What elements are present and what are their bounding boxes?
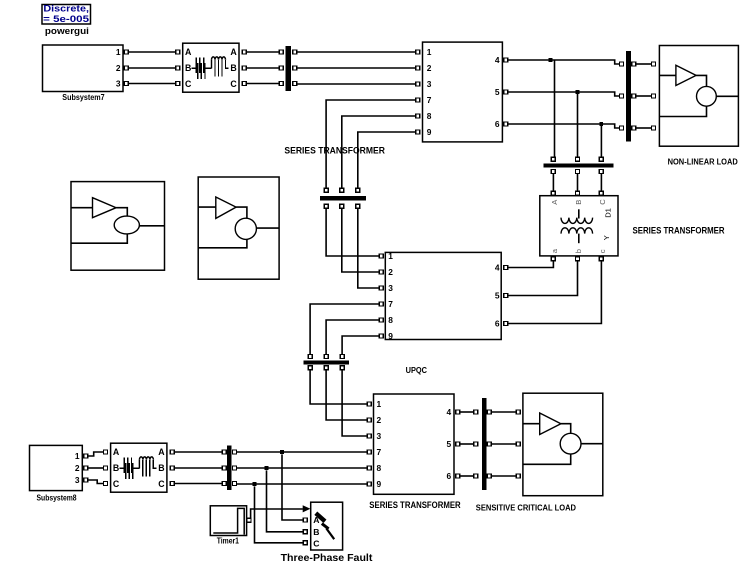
wire bus B5 to non-linear load 2 xyxy=(636,95,651,97)
sensitive load icon out line xyxy=(581,443,603,445)
series transformer bottom input ports xyxy=(367,402,371,486)
L2 icon triangle xyxy=(216,197,236,218)
wire bottom block output 5 to bus B7 xyxy=(460,443,474,445)
wire junction to fault port A xyxy=(282,454,303,520)
Subsystem8 output ports xyxy=(84,454,88,482)
wire Subsystem8-3 to T2-C xyxy=(88,480,103,484)
svg-text:7: 7 xyxy=(388,299,393,309)
Timer1 step icon xyxy=(213,508,244,534)
svg-text:5: 5 xyxy=(495,87,500,97)
wire UPQC input 9 from bus B4 xyxy=(342,336,379,354)
svg-text:3: 3 xyxy=(377,431,382,441)
bus bar B2 xyxy=(320,196,366,200)
T3 winding 1 coil xyxy=(561,218,593,224)
svg-text:SERIES TRANSFORMER: SERIES TRANSFORMER xyxy=(369,500,461,510)
wire T2-A to bus B6 xyxy=(175,451,223,453)
sensitive load icon triangle xyxy=(540,413,561,435)
wire bus B2 to UPQC input 2 xyxy=(342,209,379,272)
wire T3-A to bus B3 xyxy=(552,174,554,191)
wire junction to fault port C xyxy=(255,486,304,542)
svg-text:b: b xyxy=(574,249,583,253)
wire bus B5 to non-linear load 1 xyxy=(636,63,651,65)
non-linear load icon out line xyxy=(716,95,738,97)
fault lightning bolt xyxy=(316,513,334,539)
T2 input ports A B C xyxy=(104,450,108,486)
wire bus B4 to series-transformer-bottom input 3 xyxy=(342,370,367,436)
wire T1-C to bus B1 xyxy=(247,83,280,85)
bus B7 left ports xyxy=(474,410,478,478)
wire column B to top block input 8 xyxy=(342,116,416,188)
svg-text:NON-LINEAR LOAD: NON-LINEAR LOAD xyxy=(668,156,738,166)
svg-text:6: 6 xyxy=(495,119,500,129)
wire bus B7 to sensitive load 2 xyxy=(492,443,516,445)
junction node B xyxy=(576,90,580,94)
svg-text:Discrete,: Discrete, xyxy=(43,4,89,14)
non-linear load icon source line in xyxy=(659,74,676,76)
svg-text:4: 4 xyxy=(495,55,500,65)
bus B2 bottom ports xyxy=(324,204,360,208)
svg-text:1: 1 xyxy=(377,399,382,409)
powergui block xyxy=(42,4,91,25)
subsystem block L2 xyxy=(198,177,279,279)
wire bus B4 to series-transformer-bottom input 1 xyxy=(310,370,367,404)
svg-text:A: A xyxy=(185,47,192,57)
wire T2-C to bus B6 xyxy=(175,483,223,485)
bus bar B6 xyxy=(227,445,232,490)
sensitive load icon circle xyxy=(560,433,581,454)
bus B4 bottom ports xyxy=(308,366,344,370)
L1 icon bottom line xyxy=(71,234,127,243)
svg-text:A: A xyxy=(158,447,165,457)
svg-text:= 5e-005: = 5e-005 xyxy=(43,14,89,24)
L1 icon line in xyxy=(71,207,93,209)
svg-text:8: 8 xyxy=(377,463,382,473)
T3 top ports A B C xyxy=(551,191,603,195)
svg-text:2: 2 xyxy=(116,63,121,73)
svg-text:C: C xyxy=(158,479,165,489)
svg-text:6: 6 xyxy=(447,471,452,481)
T2 winding icon xyxy=(120,457,157,479)
bus B6 left ports xyxy=(222,450,226,486)
svg-text:SENSITIVE CRITICAL LOAD: SENSITIVE CRITICAL LOAD xyxy=(476,502,576,512)
T2 output ports A B C xyxy=(170,450,174,486)
subsystem Subsystem8 xyxy=(30,445,83,490)
T3 winding 2 stub xyxy=(578,234,580,244)
svg-text:7: 7 xyxy=(377,447,382,457)
bus B1 right ports xyxy=(293,50,297,86)
T3 port labels a b c xyxy=(550,248,607,253)
series transformer bottom block xyxy=(374,394,455,494)
non-linear load icon triangle xyxy=(676,65,696,85)
wire Subsystem7-2 to T1-B xyxy=(129,67,176,69)
svg-text:2: 2 xyxy=(427,63,432,73)
svg-text:Subsystem7: Subsystem7 xyxy=(62,92,104,102)
svg-text:A: A xyxy=(113,447,120,457)
svg-text:SERIES TRANSFORMER: SERIES TRANSFORMER xyxy=(633,225,726,235)
junction node fault A xyxy=(280,450,284,454)
L2 icon out line xyxy=(256,227,279,229)
Timer1 block xyxy=(210,506,246,536)
series transformer bottom output ports xyxy=(456,410,460,478)
bus B2 top ports xyxy=(324,188,360,192)
svg-text:1: 1 xyxy=(116,47,121,57)
svg-text:B: B xyxy=(574,200,583,205)
junction node fault C xyxy=(253,482,257,486)
UPQC input ports xyxy=(379,254,383,338)
wire bus B4 to series-transformer-bottom input 2 xyxy=(326,370,367,420)
L1 icon connector xyxy=(116,208,127,217)
wire Timer1 to fault trigger xyxy=(251,509,303,518)
T3 bottom ports a b c xyxy=(551,257,603,261)
wire column C to top block input 9 xyxy=(358,132,416,188)
non-linear load block xyxy=(659,46,738,147)
svg-text:5: 5 xyxy=(495,290,500,300)
wire column A to top block input 7 xyxy=(326,100,415,188)
wire UPQC input 7 from bus B4 xyxy=(310,304,379,354)
bus bar B1 xyxy=(285,46,291,91)
wire bus B7 to sensitive load 1 xyxy=(492,411,516,413)
bus B7 right ports xyxy=(487,410,491,478)
bus B3 top ports xyxy=(551,157,603,161)
wire bus B2 to UPQC input 3 xyxy=(358,209,379,288)
svg-text:c: c xyxy=(598,249,607,253)
bus bar B4 xyxy=(303,361,349,365)
svg-text:B: B xyxy=(313,527,319,537)
wire T3-C to bus B3 xyxy=(600,174,602,191)
wire bus B1 to series-transformer-top input 3 xyxy=(297,83,415,85)
three-phase fault block xyxy=(311,502,343,550)
svg-text:2: 2 xyxy=(75,463,80,473)
T3 winding 2 coil xyxy=(561,228,593,234)
svg-text:9: 9 xyxy=(377,479,382,489)
wire UPQC output 4 to T3 port a xyxy=(508,261,553,268)
wire junction B down to bus B3 xyxy=(577,92,579,157)
svg-text:9: 9 xyxy=(427,127,432,137)
T1 winding icon xyxy=(192,57,229,79)
wire top block output 6 to bus B5 xyxy=(508,124,619,128)
fault input ports A B C xyxy=(303,518,307,545)
svg-text:2: 2 xyxy=(388,267,393,277)
Timer1 output port xyxy=(247,518,251,522)
sensitive load icon connector xyxy=(561,424,571,434)
three-phase transformer T2 block xyxy=(111,443,167,492)
svg-text:3: 3 xyxy=(388,283,393,293)
wire bottom block output 6 to bus B7 xyxy=(460,475,474,477)
series transformer top input ports xyxy=(416,50,420,134)
svg-text:5: 5 xyxy=(447,439,452,449)
wire junction C down to bus B3 xyxy=(600,124,602,157)
svg-text:B: B xyxy=(158,463,164,473)
wire T1-A to bus B1 xyxy=(247,51,280,53)
wire junction to fault port B xyxy=(267,470,304,531)
svg-text:UPQC: UPQC xyxy=(406,365,427,375)
sensitive critical load block xyxy=(523,393,603,496)
sensitive load icon line in xyxy=(523,423,540,425)
non-linear load icon circle xyxy=(697,86,717,106)
subsystem Subsystem7 xyxy=(43,45,124,92)
wire bus B1 to series-transformer-top input 2 xyxy=(297,67,415,69)
svg-text:6: 6 xyxy=(495,318,500,328)
svg-text:3: 3 xyxy=(75,475,80,485)
svg-text:C: C xyxy=(113,479,120,489)
series transformer top block xyxy=(423,42,503,142)
L2 icon connector xyxy=(236,207,247,218)
wire bus B5 to non-linear load 3 xyxy=(636,127,651,129)
svg-text:SERIES TRANSFORMER: SERIES TRANSFORMER xyxy=(284,145,385,155)
wire UPQC output 6 to T3 port c xyxy=(508,261,601,324)
bus B6 right ports xyxy=(233,450,237,486)
T3 winding 1 stub xyxy=(578,209,580,218)
wire Subsystem7-3 to T1-C xyxy=(129,83,176,85)
UPQC block xyxy=(385,251,501,341)
svg-text:1: 1 xyxy=(75,451,80,461)
L2 icon line in xyxy=(198,206,216,208)
T1 output ports A B C xyxy=(242,50,246,86)
svg-text:Timer1: Timer1 xyxy=(217,535,239,545)
three-phase transformer T3 block (rotated) xyxy=(540,196,618,256)
wire bus B6 to series-transformer-bottom input 7 xyxy=(237,451,367,453)
svg-text:9: 9 xyxy=(388,331,393,341)
sensitive load input ports xyxy=(516,410,520,478)
wire bus B6 to series-transformer-bottom input 9 xyxy=(237,483,367,485)
bus bar B5 xyxy=(626,51,631,141)
bus B3 bottom ports xyxy=(551,170,603,174)
fault trigger arrowhead xyxy=(303,505,311,512)
UPQC output ports xyxy=(504,266,508,326)
wire T2-B to bus B6 xyxy=(175,467,223,469)
svg-text:Subsystem8: Subsystem8 xyxy=(37,492,77,502)
wire T3-B to bus B3 xyxy=(577,174,579,191)
bus B5 right ports xyxy=(632,62,636,130)
svg-text:2: 2 xyxy=(377,415,382,425)
wire top block output 4 to bus B5 xyxy=(508,60,619,64)
svg-text:7: 7 xyxy=(427,95,432,105)
non-linear load icon bottom line xyxy=(659,106,706,116)
L2 icon bottom line xyxy=(198,239,247,247)
svg-text:8: 8 xyxy=(427,111,432,121)
wire bus B6 to series-transformer-bottom input 8 xyxy=(237,467,367,469)
L2 icon circle xyxy=(235,218,256,239)
svg-text:C: C xyxy=(598,199,607,205)
wire T1-B to bus B1 xyxy=(247,67,280,69)
svg-text:1: 1 xyxy=(427,47,432,57)
wire UPQC output 5 to T3 port b xyxy=(508,261,577,296)
bus B4 top ports xyxy=(308,355,344,359)
svg-text:4: 4 xyxy=(447,407,452,417)
bus B5 left ports xyxy=(620,62,624,130)
wire UPQC input 8 from bus B4 xyxy=(326,320,379,354)
svg-text:B: B xyxy=(185,63,191,73)
wire bus B2 to UPQC input 1 xyxy=(326,209,379,256)
svg-text:4: 4 xyxy=(495,262,500,272)
svg-text:Three-Phase Fault: Three-Phase Fault xyxy=(281,552,373,564)
wire top block output 5 to bus B5 xyxy=(508,92,619,96)
wire bottom block output 4 to bus B7 xyxy=(460,411,474,413)
bus B1 left ports xyxy=(279,50,283,86)
non-linear load input ports xyxy=(652,62,656,130)
T3 port labels A B C xyxy=(550,199,607,205)
svg-text:1: 1 xyxy=(388,251,393,261)
L1 icon out line xyxy=(139,225,164,227)
svg-text:C: C xyxy=(230,79,237,89)
three-phase transformer T1 block xyxy=(183,43,239,92)
svg-text:D1: D1 xyxy=(604,208,613,218)
bus bar B7 xyxy=(482,398,487,490)
svg-text:A: A xyxy=(230,47,237,57)
wire Subsystem7-1 to T1-A xyxy=(129,51,176,53)
bus bar B3 xyxy=(543,164,613,168)
svg-text:C: C xyxy=(313,538,319,548)
wire Subsystem8-1 to T2-A xyxy=(88,452,103,456)
svg-text:B: B xyxy=(230,63,236,73)
svg-text:B: B xyxy=(113,463,119,473)
T1 input ports A B C xyxy=(176,50,180,86)
non-linear load icon connector xyxy=(696,75,706,86)
svg-text:C: C xyxy=(185,79,192,89)
series transformer top output ports xyxy=(504,58,508,126)
svg-text:3: 3 xyxy=(427,79,432,89)
junction node A xyxy=(549,58,553,62)
L1 icon ellipse xyxy=(114,216,139,234)
sensitive load icon bottom line xyxy=(523,454,571,464)
junction node C xyxy=(600,122,604,126)
svg-text:Y: Y xyxy=(602,235,611,240)
wire junction A down to bus B3 xyxy=(554,60,556,157)
svg-text:powergui: powergui xyxy=(45,26,89,36)
subsystem block L1 xyxy=(71,182,165,271)
wire bus B7 to sensitive load 3 xyxy=(492,475,516,477)
junction node fault B xyxy=(265,466,269,470)
svg-text:3: 3 xyxy=(116,79,121,89)
Subsystem7 output ports 1 2 3 xyxy=(124,50,128,86)
L1 icon triangle xyxy=(93,198,117,218)
wire Subsystem8-2 to T2-B xyxy=(88,467,103,469)
svg-text:8: 8 xyxy=(388,315,393,325)
wire bus B1 to series-transformer-top input 1 xyxy=(297,51,415,53)
